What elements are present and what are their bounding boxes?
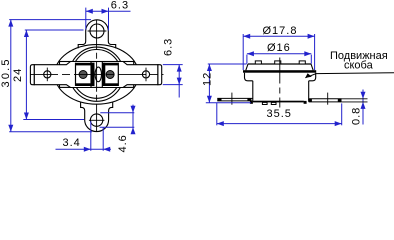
dim 3.4: ext left [90,121,92,151]
dim 12: ext bottom [206,102,251,104]
arrows [8,9,365,152]
flange ellipse (outer body) [55,45,139,105]
bottom hole horizontal tick [89,119,105,121]
dim 6.3 right: line [178,65,180,98]
dim D16: line [247,53,311,55]
right terminal blade [102,62,158,88]
6.3 right arrows [177,65,182,72]
4.6 arrows (outside) [131,106,136,113]
dim 4.6: ext bottom [100,126,135,128]
svg-text:30.5: 30.5 [0,57,12,87]
body left wall [252,81,254,101]
foot 2 [271,102,276,104]
dim 6.3 top: ext right [108,8,110,31]
dim 12: line [208,64,210,103]
right blade tip cap [158,65,162,85]
side view centerline [279,58,281,108]
dim 30.5: ext top [9,19,91,21]
svg-text:0.8: 0.8 [351,107,363,125]
cap top edge [248,63,311,65]
center bushing ellipse [95,67,101,82]
bell left [245,73,253,81]
right blade top line [309,98,342,100]
dim D16: ext left [246,55,248,64]
left blade bottom line [217,100,253,102]
svg-text:скоба: скоба [344,60,374,72]
left blade top line [217,97,253,99]
left blade hole [44,71,51,78]
leader line to text [305,73,394,78]
horizontal centerline [30,73,164,75]
dim 6.3 top: line [86,10,131,12]
dim D17.8: ext right [314,34,316,70]
top hole horizontal tick [88,30,107,32]
dim 24: ext top [25,29,84,31]
dim 6.3 right: ext bottom [163,84,183,86]
dim 3.4: ext right [102,128,104,151]
left bracket inner wall [91,63,94,86]
bottom mounting tab [81,102,113,131]
dim 0.8: line [362,90,364,125]
left blade tip cap [30,65,34,85]
right blade hole tick [327,93,329,105]
svg-text:Ø16: Ø16 [267,42,291,54]
dim 30.5: ext bottom [9,131,92,133]
cap right wall [311,64,313,70]
dim D17.8: ext left [242,34,244,70]
left rivet [79,71,87,79]
left blade end box inner [247,98,251,101]
svg-text:Ø17.8: Ø17.8 [263,25,298,37]
D17.8 arrows [243,34,250,39]
right blade hole [142,71,149,78]
dim 6.3 right: ext top [163,64,183,66]
dim 4.6: line [132,105,134,134]
dim 35.5: ext left [216,103,218,125]
middle band rect [60,62,134,88]
right bracket inner wall [102,63,105,86]
right bracket bottom bar [102,83,118,86]
plate right lip [304,101,307,104]
flange plate bar [253,101,304,103]
24 arrows [24,30,29,37]
35.5 arrows [217,121,224,126]
right blade bottom line [309,101,342,103]
left bracket outer wall [75,63,77,86]
30.5 arrows [8,20,13,27]
right blade box tip [338,99,342,102]
svg-text:6.3: 6.3 [111,0,129,12]
svg-text:3.4: 3.4 [63,137,81,149]
left blade hole tick [231,93,233,105]
dim 6.3 top: ext left [85,8,87,30]
dim 24: line [25,30,27,120]
cap circle inner [72,50,121,99]
foot 1 [262,102,267,104]
right bracket top bar [102,63,118,66]
6.3 top arrows [86,9,93,14]
right bracket outer wall [117,63,119,86]
dim 12: ext top [208,63,247,65]
left blade end box outer [217,98,221,101]
dim 35.5: ext right [341,103,343,125]
right blade box inner [308,99,312,102]
right blade hole vertical tick [145,68,147,82]
dim 0.8: ext lines (black, blade edge extensions) [342,98,368,100]
cap bump 3 [299,61,305,64]
dim 3.4: line [56,148,112,150]
D16 arrows [247,51,254,56]
svg-text:6.3: 6.3 [163,38,175,56]
dim 24: ext bottom [23,119,84,121]
cap bump 2 [275,61,281,64]
dim D16: ext right [310,55,312,64]
left blade hole vertical tick [46,68,48,82]
dim 35.5: line [217,123,342,125]
0.8 arrows (outside) [361,92,366,99]
cap rim (black bar) [243,70,316,73]
left bracket top bar [75,63,95,66]
dim 4.6: ext top [100,112,134,114]
vertical centerline [96,20,98,132]
cap left wall [246,64,248,70]
body right wall [308,81,310,101]
left bracket bottom bar [75,83,95,86]
svg-text:24: 24 [12,68,24,82]
svg-text:12: 12 [202,72,214,86]
cap circle outer [70,47,124,101]
left terminal blade [34,62,91,88]
svg-text:4.6: 4.6 [117,134,129,152]
bottom tab hole [90,114,102,126]
bell right [309,73,316,81]
plate left lip [250,101,253,104]
cap bump 1 [255,61,261,64]
top tab hole [90,24,104,38]
12 arrows [207,64,212,71]
top mounting tab [78,20,116,48]
dim 30.5: line [10,20,12,132]
dim D17.8: line [243,35,314,37]
svg-text:35.5: 35.5 [267,108,292,120]
leader arrowhead [305,73,312,78]
3.4 arrows (outside) [84,147,91,152]
right rivet [106,71,114,79]
